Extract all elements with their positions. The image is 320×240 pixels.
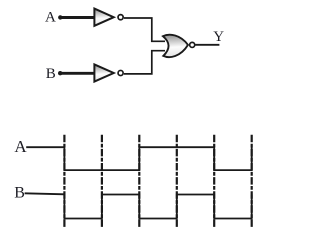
- svg-text:B: B: [46, 66, 56, 82]
- svg-text:A: A: [14, 137, 27, 156]
- svg-text:B: B: [14, 185, 25, 202]
- svg-text:Y: Y: [213, 29, 224, 45]
- svg-text:A: A: [45, 10, 56, 26]
